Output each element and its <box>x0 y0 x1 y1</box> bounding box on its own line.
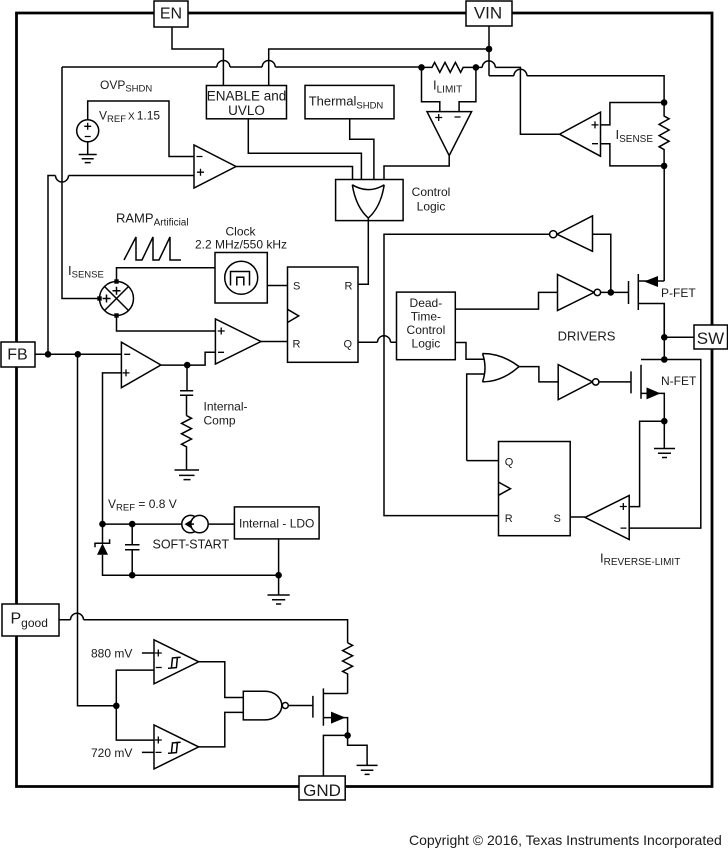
svg-text:ENABLE and: ENABLE and <box>207 89 287 104</box>
svg-text:VIN: VIN <box>474 4 502 23</box>
svg-text:FB: FB <box>7 347 27 364</box>
svg-text:Copyright © 2016, Texas Instru: Copyright © 2016, Texas Instruments Inco… <box>409 832 722 848</box>
svg-text:R: R <box>345 281 353 293</box>
svg-text:UVLO: UVLO <box>228 103 265 118</box>
svg-text:SW: SW <box>697 329 724 348</box>
svg-text:Q: Q <box>505 457 514 469</box>
svg-text:Internal-: Internal- <box>204 400 248 414</box>
svg-text:Comp: Comp <box>204 414 236 428</box>
svg-text:880 mV: 880 mV <box>91 647 132 661</box>
svg-text:720 mV: 720 mV <box>91 746 132 760</box>
svg-text:Internal - LDO: Internal - LDO <box>239 517 314 531</box>
svg-text:Control: Control <box>412 185 451 199</box>
svg-text:S: S <box>554 513 561 525</box>
svg-text:R: R <box>505 513 513 525</box>
svg-text:Q: Q <box>344 339 353 351</box>
svg-text:SOFT-START: SOFT-START <box>153 538 230 552</box>
svg-text:Logic: Logic <box>412 337 441 351</box>
svg-text:R: R <box>293 339 301 351</box>
svg-text:Logic: Logic <box>417 200 446 214</box>
svg-text:S: S <box>293 281 300 293</box>
svg-text:DRIVERS: DRIVERS <box>558 329 616 344</box>
svg-text:2.2 MHz/550 kHz: 2.2 MHz/550 kHz <box>195 238 287 252</box>
svg-text:P-FET: P-FET <box>661 286 696 300</box>
svg-text:N-FET: N-FET <box>661 374 697 388</box>
svg-text:EN: EN <box>160 6 182 23</box>
svg-text:Control: Control <box>407 323 446 337</box>
svg-text:Dead-: Dead- <box>410 296 443 310</box>
svg-text:Time-: Time- <box>411 310 441 324</box>
svg-text:Clock: Clock <box>225 225 256 239</box>
svg-text:GND: GND <box>303 781 341 800</box>
